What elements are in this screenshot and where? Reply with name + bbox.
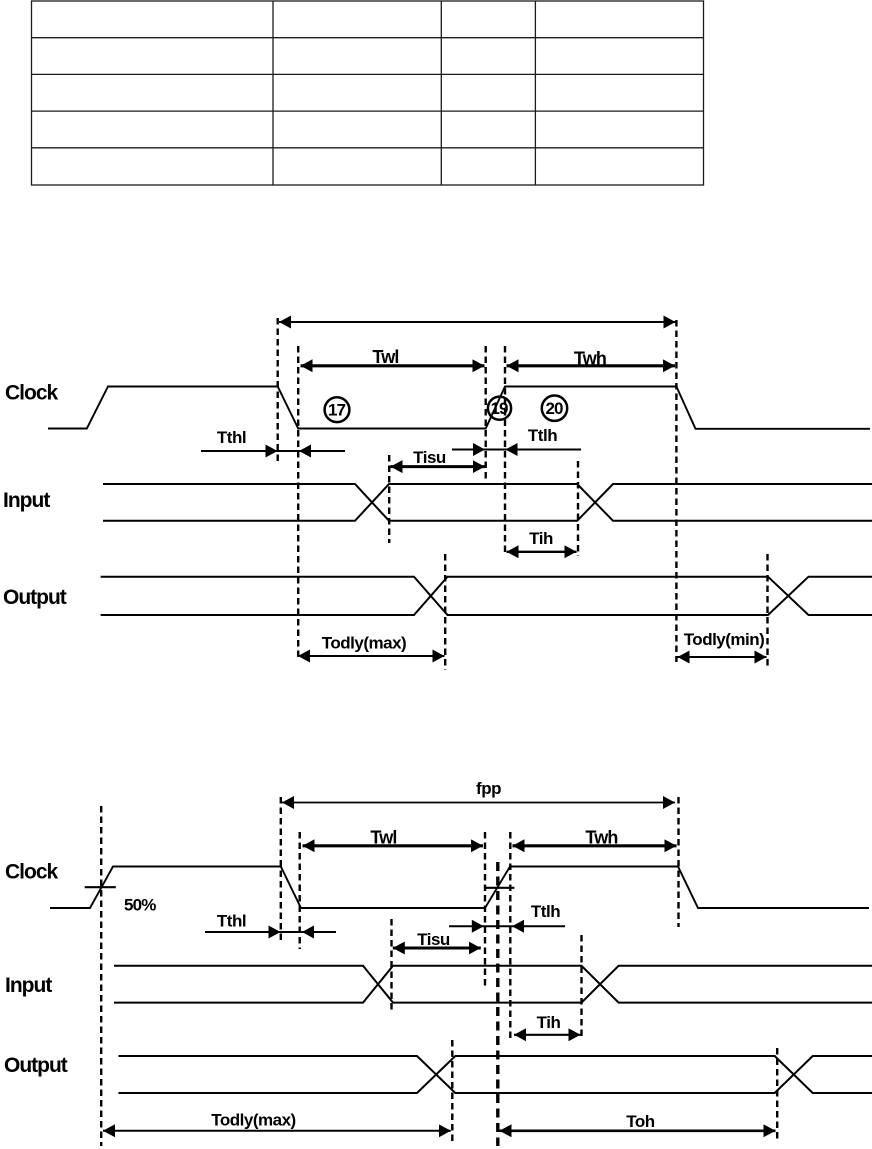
svg-text:Ttlh: Ttlh bbox=[531, 902, 560, 921]
svg-text:Clock: Clock bbox=[5, 861, 59, 884]
svg-text:Twl: Twl bbox=[372, 347, 398, 367]
svg-text:Twl: Twl bbox=[370, 828, 396, 848]
svg-text:Input: Input bbox=[5, 974, 52, 997]
svg-text:Tih: Tih bbox=[537, 1013, 561, 1032]
svg-text:20: 20 bbox=[546, 399, 563, 418]
svg-text:Todly(max): Todly(max) bbox=[211, 1111, 295, 1130]
svg-text:Tisu: Tisu bbox=[413, 448, 446, 467]
svg-text:Tisu: Tisu bbox=[417, 930, 450, 949]
svg-text:Tthl: Tthl bbox=[217, 912, 246, 931]
svg-text:Ttlh: Ttlh bbox=[528, 426, 557, 445]
svg-text:19: 19 bbox=[491, 399, 508, 418]
svg-text:Clock: Clock bbox=[5, 382, 59, 405]
svg-text:Tih: Tih bbox=[529, 529, 553, 548]
svg-text:Output: Output bbox=[3, 586, 67, 609]
svg-text:Todly(max): Todly(max) bbox=[322, 634, 406, 653]
svg-text:Toh: Toh bbox=[626, 1112, 655, 1131]
svg-text:Todly(min): Todly(min) bbox=[684, 630, 765, 649]
svg-text:Twh: Twh bbox=[585, 828, 617, 848]
svg-text:Tthl: Tthl bbox=[217, 428, 246, 447]
svg-text:50%: 50% bbox=[124, 896, 156, 915]
svg-text:Output: Output bbox=[4, 1054, 68, 1077]
svg-text:17: 17 bbox=[328, 401, 345, 420]
svg-text:Twh: Twh bbox=[574, 349, 606, 369]
svg-text:fpp: fpp bbox=[476, 779, 501, 798]
svg-text:Input: Input bbox=[3, 489, 50, 512]
